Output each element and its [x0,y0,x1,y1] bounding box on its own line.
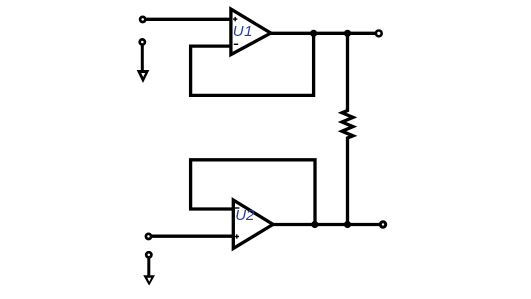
svg-text:U1: U1 [233,23,253,40]
svg-text:U2: U2 [235,207,255,224]
